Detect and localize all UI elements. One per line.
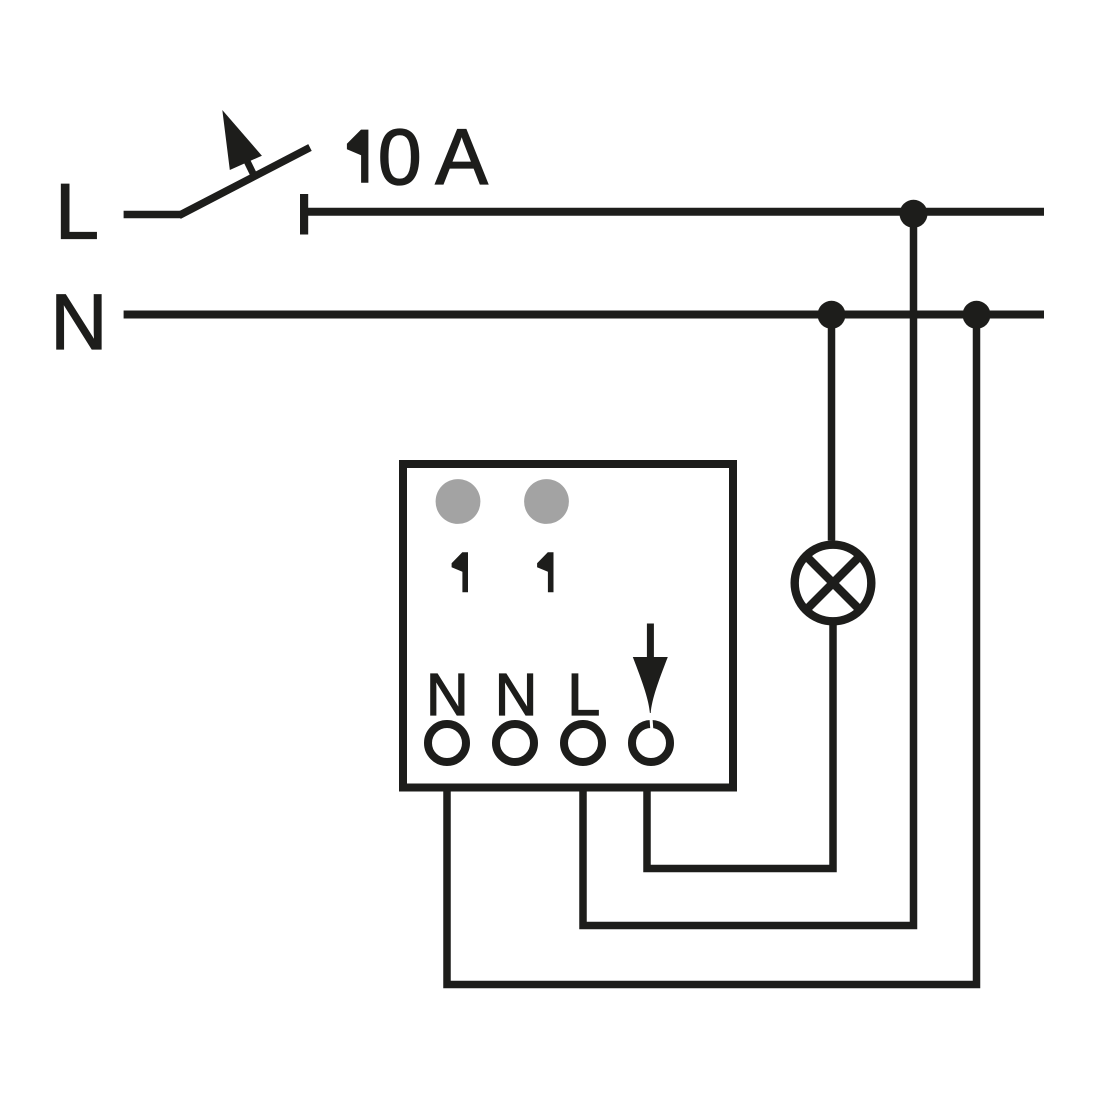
svg-text:L: L bbox=[567, 662, 600, 728]
svg-text:N: N bbox=[50, 277, 107, 366]
svg-text:N: N bbox=[426, 662, 469, 728]
svg-text:L: L bbox=[55, 166, 99, 255]
svg-text:0: 0 bbox=[378, 112, 422, 201]
svg-text:N: N bbox=[495, 662, 538, 728]
svg-text:A: A bbox=[435, 112, 488, 201]
